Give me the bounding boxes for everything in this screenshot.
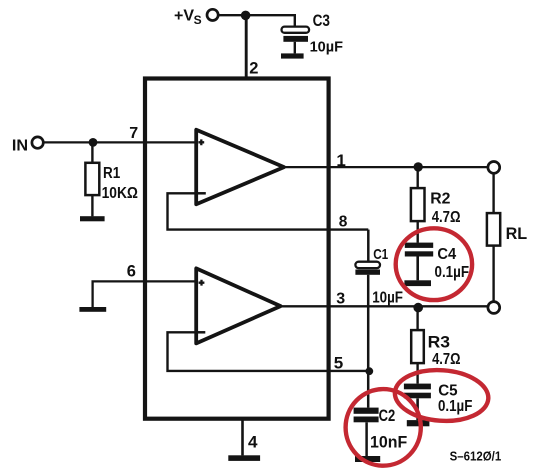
svg-text:10µF: 10µF (372, 289, 403, 306)
ground R1 (80, 216, 105, 221)
svg-text:IN: IN (12, 138, 28, 155)
capacitor C5 (404, 384, 431, 421)
node supply junction (241, 11, 251, 21)
wire output pin 1 (283, 166, 488, 168)
svg-text:S: S (194, 13, 202, 27)
svg-text:C1: C1 (373, 246, 388, 263)
wire +Vs to supply node (219, 14, 246, 16)
capacitor C2 (354, 371, 379, 456)
resistor RL (487, 173, 500, 301)
wire IN to op-amp input (44, 141, 196, 143)
label +Vs (174, 8, 202, 28)
capacitor C4 (405, 243, 433, 281)
svg-text:6: 6 (127, 262, 136, 280)
svg-text:C2: C2 (379, 407, 396, 425)
annotation circle C2 (346, 389, 421, 466)
svg-text:0.1µF: 0.1µF (438, 398, 472, 415)
node input junction (89, 138, 98, 147)
wire U1A feedback to pin 8 (168, 193, 369, 229)
resistor R1 (85, 142, 99, 216)
capacitor C1 (355, 230, 380, 275)
wire C1 to pin5 node (367, 275, 370, 371)
svg-text:R3: R3 (428, 333, 450, 352)
svg-text:4.7Ω: 4.7Ω (432, 209, 461, 226)
ground C2 (355, 456, 380, 462)
svg-text:+V: +V (174, 8, 194, 25)
ground C5 (407, 420, 430, 426)
op-amp U1A (196, 130, 284, 205)
node pin3 R3 junction (413, 303, 423, 313)
svg-text:10KΩ: 10KΩ (102, 185, 139, 202)
ground pin 6 (79, 307, 106, 312)
wire pin 6 (93, 281, 196, 307)
resistor R3 (411, 307, 424, 384)
annotation circle C5 (393, 367, 490, 424)
svg-text:10nF: 10nF (370, 432, 407, 451)
svg-text:R1: R1 (103, 165, 120, 182)
wire U1B feedback to pin 5 (168, 332, 369, 371)
wire pin 4 (241, 421, 244, 456)
annotation circle C4 (396, 228, 472, 300)
ground pin 4 (228, 455, 260, 461)
terminal IN (32, 137, 43, 148)
op-amp U1B (196, 268, 280, 343)
node pin1 R2 junction (414, 162, 423, 171)
terminal OUT2 (488, 302, 500, 314)
wire pin 2 (245, 15, 248, 79)
svg-text:R2: R2 (430, 191, 450, 208)
resistor R2 (411, 167, 425, 243)
svg-text:10µF: 10µF (310, 39, 344, 55)
ground C3 (281, 53, 304, 58)
wire supply node to C3 (246, 15, 295, 26)
svg-text:2: 2 (249, 59, 258, 77)
svg-text:RL: RL (506, 224, 528, 243)
terminal OUT1 (488, 162, 500, 174)
ground C4 (404, 280, 431, 286)
svg-text:3: 3 (336, 290, 345, 307)
svg-text:4.7Ω: 4.7Ω (432, 351, 461, 368)
IC U1 outline (145, 79, 329, 419)
node pin 5 junction (365, 367, 373, 375)
svg-text:S–612Ø/1: S–612Ø/1 (450, 448, 502, 463)
svg-text:7: 7 (129, 125, 138, 142)
terminal +Vs (207, 9, 218, 20)
svg-text:0.1µF: 0.1µF (435, 264, 470, 281)
svg-text:1: 1 (336, 151, 345, 170)
svg-text:C4: C4 (437, 246, 456, 263)
svg-text:C5: C5 (438, 382, 457, 399)
svg-text:8: 8 (339, 214, 348, 231)
svg-text:4: 4 (248, 433, 258, 452)
wire output pin 3 (280, 305, 488, 307)
capacitor C3 (282, 27, 310, 54)
svg-text:C3: C3 (313, 12, 330, 30)
svg-text:5: 5 (334, 353, 343, 372)
